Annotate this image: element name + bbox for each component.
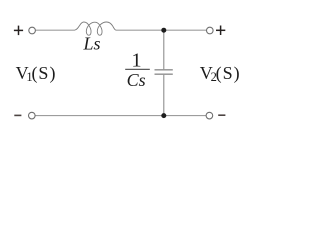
svg-text:V1(S): V1(S) — [16, 63, 57, 84]
svg-text:Ls: Ls — [83, 34, 101, 54]
capacitor C1 top lead — [163, 30, 165, 69]
wire top-right (inductor to node A to right terminal) — [116, 29, 206, 31]
wire bottom (left terminal to node B to right terminal) — [35, 115, 206, 117]
terminal circle bottom-left — [29, 112, 36, 119]
plus sign top-left — [14, 26, 23, 35]
plus sign top-right — [216, 26, 225, 36]
wire top-left (terminal to inductor) — [36, 29, 75, 31]
inductor L — [75, 22, 116, 35]
terminal circle bottom-right — [206, 112, 213, 119]
svg-text:V2(S): V2(S) — [200, 63, 241, 84]
fraction bar — [125, 68, 150, 70]
capacitor C1 bottom plate — [155, 73, 173, 75]
capacitor C1 bottom lead — [163, 75, 165, 116]
capacitor C1 top plate — [155, 69, 173, 71]
node A junction dot top — [161, 28, 166, 33]
minus sign bottom-right — [218, 114, 225, 116]
terminal circle top-right — [207, 27, 214, 34]
node B junction dot bottom — [161, 113, 166, 118]
terminal circle top-left — [29, 27, 36, 34]
svg-text:1: 1 — [131, 50, 141, 72]
minus sign bottom-left — [14, 114, 21, 116]
svg-text:Cs: Cs — [127, 70, 146, 90]
